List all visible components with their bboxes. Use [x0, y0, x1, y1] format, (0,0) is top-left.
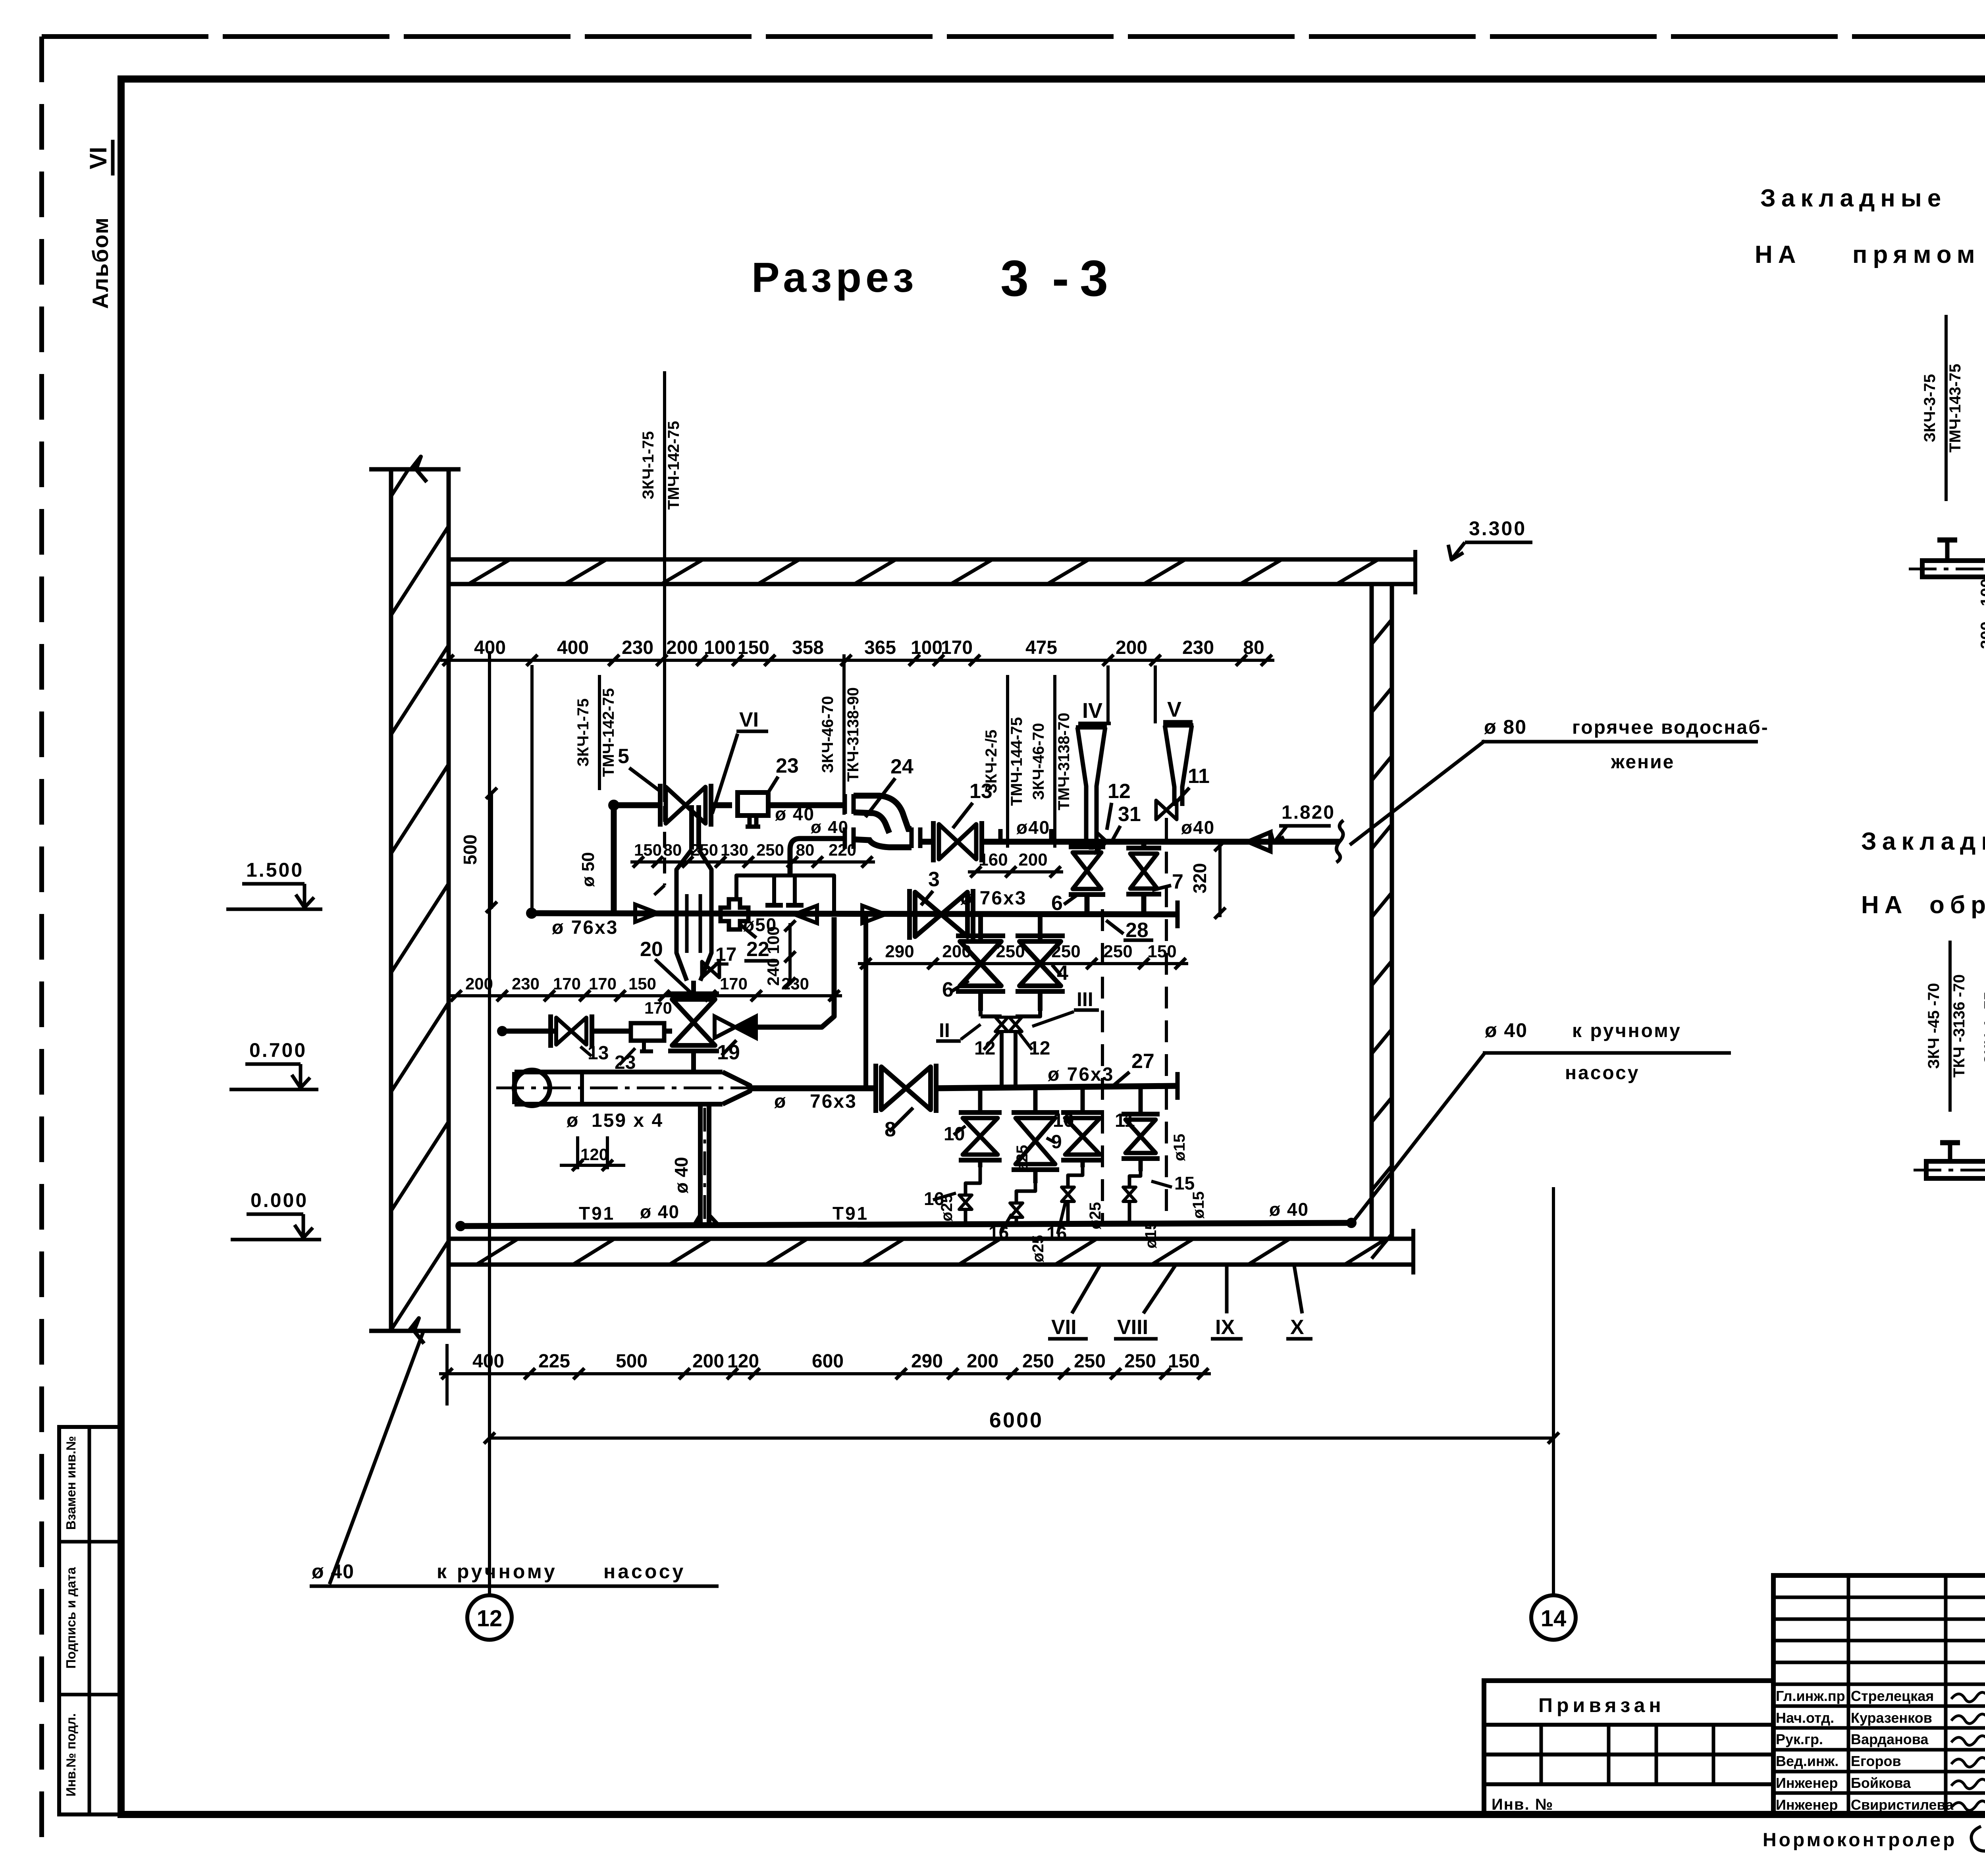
cross fitting 22	[721, 899, 748, 929]
bypass line	[736, 875, 834, 914]
svg-text:230: 230	[512, 974, 540, 993]
support marks on pipe	[992, 839, 1009, 844]
top dimension row	[440, 659, 1274, 662]
svg-text:23: 23	[776, 754, 799, 777]
dim 120 under tank	[576, 1136, 579, 1169]
svg-text:Инженер: Инженер	[1776, 1775, 1838, 1791]
bottom dimension row	[439, 1372, 1211, 1375]
svg-text:31: 31	[1118, 803, 1141, 826]
valve 13 left branch	[556, 1018, 586, 1045]
drain valve 11b	[1139, 1086, 1143, 1116]
svg-text:ø 80: ø 80	[1484, 716, 1527, 738]
svg-text:250: 250	[1103, 942, 1132, 961]
svg-text:150: 150	[738, 637, 769, 658]
svg-text:ø 40: ø 40	[811, 817, 849, 837]
detail2 fraction group 1	[1948, 941, 1952, 1112]
vessel riser from upper pipe	[689, 805, 694, 850]
privyazan table	[1484, 1681, 1773, 1814]
svg-text:Инв.№ подл.: Инв.№ подл.	[64, 1713, 78, 1797]
svg-text:IX: IX	[1215, 1316, 1235, 1339]
svg-text:VI: VI	[739, 708, 759, 731]
svg-text:III: III	[1077, 988, 1093, 1010]
svg-text:240: 240	[764, 958, 782, 986]
svg-text:Привязан: Привязан	[1538, 1694, 1665, 1716]
detail2 collector bar	[1926, 1161, 1985, 1178]
dim 500 vertical	[490, 791, 493, 909]
svg-text:320: 320	[1189, 863, 1210, 894]
svg-text:ø 40: ø 40	[671, 1157, 692, 1193]
svg-text:II: II	[939, 1019, 950, 1041]
svg-text:230: 230	[781, 974, 809, 993]
svg-text:200: 200	[666, 637, 698, 658]
svg-text:150: 150	[1168, 1351, 1200, 1372]
svg-text:290: 290	[911, 1351, 943, 1372]
dim extension to funnel IV	[1106, 665, 1110, 725]
svg-text:290: 290	[885, 942, 914, 961]
svg-text:ТКЧ-3138-90: ТКЧ-3138-90	[844, 687, 862, 782]
left branch pipe	[502, 1029, 554, 1034]
svg-text:3.300: 3.300	[1469, 517, 1526, 540]
svg-text:к ручному: к ручному	[1572, 1020, 1682, 1041]
floor slab	[447, 1237, 1413, 1241]
svg-text:200: 200	[465, 974, 493, 993]
svg-text:ø25: ø25	[1029, 1235, 1047, 1263]
svg-text:ø 76x3: ø 76x3	[1048, 1064, 1114, 1085]
drain drop 1	[966, 1167, 980, 1195]
numeral X leader	[1294, 1266, 1302, 1313]
dim extension to funnel V	[1154, 665, 1157, 723]
svg-text:Куразенков: Куразенков	[1851, 1710, 1932, 1726]
small relief valve on pipe	[1097, 832, 1107, 851]
svg-text:170: 170	[644, 999, 672, 1017]
valve 6 mid (between headers)	[978, 916, 983, 939]
dashed drains	[1101, 909, 1104, 1225]
svg-text:VI: VI	[85, 147, 112, 170]
svg-text:100: 100	[764, 926, 782, 954]
svg-text:ЗКЧ-2-/5: ЗКЧ-2-/5	[983, 730, 1000, 794]
riser base feet	[694, 1215, 700, 1226]
svg-text:230: 230	[622, 637, 653, 658]
drain drop 4	[1129, 1171, 1141, 1187]
svg-text:0.000: 0.000	[251, 1189, 308, 1211]
vessel bottom valve (gate)	[672, 999, 715, 1045]
svg-text:ЗКЧ-46-70: ЗКЧ-46-70	[1030, 723, 1047, 800]
pipe valve5 to device23	[713, 802, 732, 808]
svg-text:ø15: ø15	[1171, 1134, 1188, 1161]
ceiling slab hatching	[468, 559, 510, 584]
riser IV funnel	[1076, 725, 1107, 730]
svg-text:250: 250	[1022, 1351, 1054, 1372]
right wall	[1370, 584, 1374, 1238]
valve 3 on main pipe	[915, 892, 967, 937]
detail1 support mark	[1937, 538, 1957, 543]
svg-text:ø: ø	[567, 1110, 578, 1131]
detail1 collector bar	[1922, 561, 1985, 577]
svg-text:76x3: 76x3	[810, 1091, 857, 1112]
svg-text:200: 200	[967, 1351, 998, 1372]
riser V funnel	[1163, 723, 1193, 728]
grid line 14	[1552, 1187, 1555, 1595]
svg-text:130: 130	[721, 841, 748, 859]
svg-text:жение: жение	[1611, 752, 1675, 773]
svg-text:28: 28	[1125, 919, 1149, 942]
device24 right flange	[910, 827, 914, 848]
dim 320 vertical	[1218, 842, 1222, 917]
svg-text:ø 40: ø 40	[640, 1201, 680, 1222]
valve 7 under pipe	[1141, 842, 1147, 850]
svg-text:ЗКЧ-1 -75: ЗКЧ-1 -75	[1981, 991, 1985, 1064]
flow arrow right	[635, 904, 658, 922]
svg-text:400: 400	[472, 1351, 504, 1372]
svg-text:НА: НА	[1755, 241, 1802, 268]
svg-text:15: 15	[1174, 1173, 1195, 1193]
drain valve 10b	[1081, 1086, 1085, 1112]
dim 240 100 vertical	[788, 923, 792, 985]
svg-text:100: 100	[911, 637, 942, 658]
leader right note	[1355, 1053, 1485, 1220]
svg-text:обратном: обратном	[1929, 891, 1985, 919]
svg-text:230: 230	[1182, 637, 1214, 658]
svg-text:3: 3	[928, 868, 940, 891]
main pipe d76x3	[532, 913, 1178, 914]
svg-text:12: 12	[477, 1606, 503, 1631]
svg-text:ЗКЧ-1-75: ЗКЧ-1-75	[574, 698, 592, 767]
svg-text:VII: VII	[1051, 1316, 1077, 1339]
svg-text:1.500: 1.500	[246, 859, 304, 881]
svg-text:Нач.отд.: Нач.отд.	[1776, 1710, 1834, 1726]
svg-text:365: 365	[864, 637, 896, 658]
svg-text:Вед.инж.: Вед.инж.	[1776, 1753, 1839, 1769]
svg-text:НА: НА	[1861, 891, 1908, 919]
svg-text:X: X	[1290, 1316, 1304, 1339]
svg-text:ЗКЧ-1-75: ЗКЧ-1-75	[640, 431, 657, 499]
floor slab hatching	[476, 1239, 518, 1265]
svg-text:150: 150	[628, 974, 656, 993]
small twin valves 12 12	[979, 1011, 983, 1016]
svg-text:250: 250	[1074, 1351, 1106, 1372]
drain valve 10a	[978, 1086, 983, 1112]
dim 150 80 250 130 250 80 220 row	[630, 860, 875, 864]
svg-text:11: 11	[1188, 765, 1210, 788]
svg-text:к ручному: к ручному	[437, 1560, 557, 1583]
overall dimension 6000	[490, 1436, 1553, 1440]
valve 5	[666, 787, 705, 823]
svg-text:250: 250	[1124, 1351, 1156, 1372]
pipe end squiggle	[1336, 820, 1343, 862]
device 24 (water meter loop)	[843, 794, 847, 814]
grid bubble 12	[467, 1595, 512, 1640]
svg-text:120: 120	[727, 1351, 759, 1372]
svg-text:Инженер: Инженер	[1776, 1797, 1838, 1813]
svg-text:170: 170	[720, 974, 748, 993]
supports on main pipe	[772, 875, 776, 904]
svg-text:ø 40: ø 40	[1485, 1019, 1528, 1041]
svg-text:24: 24	[890, 755, 913, 778]
svg-text:170: 170	[553, 974, 581, 993]
svg-text:Взамен инв.№: Взамен инв.№	[64, 1436, 78, 1530]
svg-text:Подпись и дата: Подпись и дата	[64, 1567, 78, 1669]
svg-text:170: 170	[941, 637, 973, 658]
svg-text:Т91: Т91	[579, 1203, 615, 1224]
svg-text:ЗКЧ -45 -70: ЗКЧ -45 -70	[1925, 983, 1943, 1069]
svg-text:-: -	[1052, 250, 1069, 307]
valve 13	[939, 824, 976, 859]
svg-text:200: 200	[1018, 850, 1047, 870]
svg-text:ø 40: ø 40	[1269, 1199, 1309, 1220]
svg-text:ТМЧ-142-75: ТМЧ-142-75	[665, 421, 682, 510]
valve 8	[881, 1067, 931, 1110]
ceiling slab end tick	[1413, 550, 1417, 594]
svg-text:3: 3	[1000, 250, 1029, 307]
svg-text:225: 225	[538, 1351, 570, 1372]
valve 6 under pipe	[1089, 842, 1094, 850]
svg-text:Егоров: Егоров	[1851, 1753, 1901, 1769]
lower header end cap	[1176, 1072, 1180, 1100]
svg-text:ø25: ø25	[1014, 1145, 1031, 1172]
svg-text:VIII: VIII	[1117, 1316, 1148, 1339]
main pipe end cap	[1176, 900, 1180, 928]
valve 17 small	[702, 962, 719, 978]
svg-text:ø 76x3: ø 76x3	[960, 888, 1027, 909]
svg-text:27: 27	[1131, 1050, 1154, 1073]
svg-text:80: 80	[796, 841, 815, 859]
pipe to vessel valve	[592, 1029, 631, 1034]
dim 160 200	[968, 870, 1063, 873]
svg-text:17: 17	[715, 944, 736, 965]
drain valve 9	[1033, 1086, 1038, 1112]
svg-text:200: 200	[1977, 621, 1985, 649]
detail2 support marks	[1940, 1140, 1960, 1145]
riser d40 from tank to floor	[698, 1104, 703, 1226]
left wall	[389, 469, 393, 1331]
drop pipe between headers	[863, 916, 868, 1086]
svg-text:прямом: прямом	[1852, 241, 1981, 268]
svg-text:насосу: насосу	[1565, 1062, 1640, 1084]
svg-text:Разрез: Разрез	[752, 254, 918, 301]
pipe after valve13	[982, 839, 1339, 845]
svg-text:600: 600	[812, 1351, 844, 1372]
drain drop 3	[1068, 1167, 1083, 1187]
vessel body	[676, 850, 692, 981]
dim row 290 200 250 250 250 150	[858, 962, 1188, 965]
right wall hatching	[1372, 619, 1392, 644]
grid bubble 14	[1531, 1595, 1576, 1640]
svg-text:500: 500	[460, 835, 480, 865]
valve 11 small on riser V	[1156, 800, 1177, 819]
device 23 (control box)	[738, 792, 768, 816]
svg-text:ø 76x3: ø 76x3	[552, 917, 618, 938]
svg-text:19: 19	[717, 1041, 740, 1064]
floor pipe T91	[461, 1223, 1351, 1226]
svg-text:6000: 6000	[989, 1408, 1043, 1432]
svg-text:400: 400	[557, 637, 589, 658]
dim extension line	[530, 665, 534, 913]
svg-text:20: 20	[640, 938, 663, 961]
ceiling slab	[449, 557, 1415, 562]
svg-text:Варданова: Варданова	[1851, 1731, 1929, 1747]
support label group D	[1006, 675, 1009, 848]
svg-text:ø: ø	[774, 1091, 786, 1112]
svg-text:500: 500	[616, 1351, 648, 1372]
svg-text:ЗКЧ-46-70: ЗКЧ-46-70	[819, 696, 836, 773]
svg-text:80: 80	[1243, 637, 1264, 658]
svg-text:Свиристилева: Свиристилева	[1851, 1797, 1954, 1813]
svg-text:Гл.инж.пр: Гл.инж.пр	[1776, 1688, 1845, 1704]
pipe tank to valve 8	[750, 1085, 878, 1091]
flow arrow on upper pipe	[1248, 832, 1270, 851]
svg-text:170: 170	[589, 974, 617, 993]
lower header right of valve 8	[934, 1086, 1178, 1088]
left dim row 200 230 170 170 150 170 230	[448, 994, 842, 997]
svg-text:Рук.гр.: Рук.гр.	[1776, 1731, 1823, 1747]
outer dashed border left	[39, 37, 44, 1842]
svg-text:ТМЧ-143-75: ТМЧ-143-75	[1946, 364, 1964, 453]
svg-text:358: 358	[792, 637, 824, 658]
svg-text:горячее водоснаб-: горячее водоснаб-	[1572, 717, 1769, 738]
svg-text:159 x 4: 159 x 4	[592, 1110, 663, 1131]
svg-text:220: 220	[829, 841, 856, 859]
svg-text:475: 475	[1025, 637, 1057, 658]
flow arrow left mid	[794, 906, 817, 923]
upper pipe d40 left segment	[614, 802, 658, 808]
svg-text:1.820: 1.820	[1282, 802, 1335, 823]
svg-text:200: 200	[692, 1351, 724, 1372]
flow arrow right mid	[862, 906, 885, 923]
support label group above ceiling	[663, 371, 666, 559]
numeral IX leader	[1225, 1266, 1229, 1313]
svg-text:Бойкова: Бойкова	[1851, 1775, 1911, 1791]
svg-text:ЗКЧ-3-75: ЗКЧ-3-75	[1921, 374, 1939, 442]
svg-text:V: V	[1167, 698, 1181, 721]
pipe d40 return below device24	[800, 836, 846, 841]
detail1 fraction label	[1945, 315, 1948, 501]
leader to hand pump note	[330, 1331, 424, 1584]
svg-text:0.700: 0.700	[249, 1039, 307, 1061]
svg-text:150: 150	[634, 841, 662, 859]
svg-text:ø15: ø15	[1142, 1221, 1160, 1249]
svg-text:250: 250	[756, 841, 784, 859]
horizontal tank d159x4	[515, 1070, 723, 1074]
svg-text:ТМЧ-142-75: ТМЧ-142-75	[600, 688, 617, 777]
tank centerline	[496, 1087, 786, 1089]
svg-text:13: 13	[588, 1043, 609, 1064]
svg-text:Инв. №: Инв. №	[1492, 1796, 1553, 1813]
svg-text:Стрелецкая: Стрелецкая	[1851, 1688, 1934, 1704]
svg-text:160: 160	[979, 850, 1008, 870]
svg-text:Закладные: Закладные	[1760, 185, 1946, 212]
svg-text:Закладные: Закладные	[1861, 828, 1985, 855]
drain drop 2	[1016, 1183, 1035, 1203]
svg-text:ТМЧ-3138-70: ТМЧ-3138-70	[1055, 713, 1073, 810]
svg-text:Нормоконтролер: Нормоконтролер	[1763, 1830, 1957, 1851]
svg-text:3: 3	[1080, 250, 1108, 307]
svg-text:12: 12	[1108, 780, 1131, 803]
svg-text:5: 5	[618, 745, 629, 768]
svg-text:ø40: ø40	[1016, 817, 1050, 838]
svg-text:ø25: ø25	[1087, 1202, 1104, 1230]
svg-text:Т91: Т91	[833, 1203, 869, 1224]
svg-text:насосу: насосу	[603, 1560, 686, 1583]
svg-text:ø40: ø40	[1181, 817, 1215, 838]
left margin table	[59, 1427, 120, 1814]
support label group C	[842, 654, 846, 815]
numeral VIII leader	[1143, 1266, 1175, 1313]
signature table grid	[1773, 1575, 1985, 1814]
support label group A	[598, 675, 601, 790]
svg-text:ø 50: ø 50	[578, 852, 598, 887]
svg-text:150: 150	[1147, 942, 1176, 961]
upper pipe right segment level 2120	[918, 839, 933, 845]
svg-text:Альбом: Альбом	[88, 217, 113, 309]
svg-text:14: 14	[1541, 1606, 1567, 1631]
check valve 19 (filled)	[715, 1016, 735, 1038]
outer dashed border top	[42, 34, 1985, 39]
numeral VII leader	[1072, 1266, 1100, 1313]
svg-text:100: 100	[704, 637, 736, 658]
support label group E	[1053, 675, 1056, 848]
svg-text:200: 200	[1116, 637, 1147, 658]
svg-text:ТКЧ -3136 -70: ТКЧ -3136 -70	[1950, 974, 1968, 1078]
riser d50 from main to upper pipe	[611, 805, 617, 911]
pipe from valve19 up to main	[756, 917, 834, 1027]
svg-text:ø25: ø25	[938, 1194, 956, 1222]
grid line 12	[488, 651, 491, 1595]
svg-text:IV: IV	[1082, 699, 1102, 723]
valve 4 mid	[1038, 916, 1043, 939]
device 23 small box left branch	[631, 1023, 664, 1041]
svg-text:120: 120	[580, 1145, 608, 1164]
support label line through slab	[663, 559, 666, 802]
svg-text:100: 100	[1977, 578, 1985, 606]
svg-text:ТМЧ-144-75: ТМЧ-144-75	[1008, 717, 1025, 806]
pipe device23 to device24	[768, 802, 843, 808]
svg-text:ø15: ø15	[1190, 1192, 1207, 1219]
svg-text:7: 7	[1172, 870, 1183, 893]
leader d80 note	[1350, 741, 1485, 845]
